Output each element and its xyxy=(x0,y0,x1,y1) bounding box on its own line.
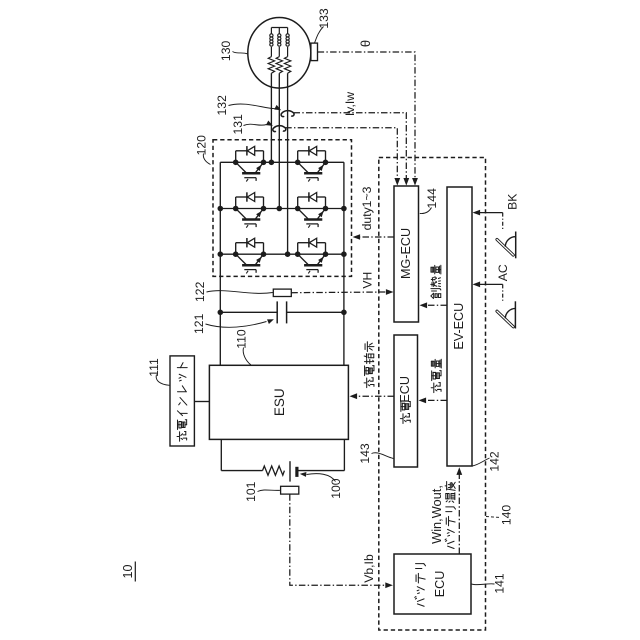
inductor: motor winding L3 xyxy=(287,28,289,35)
svg-text:Iv,Iw: Iv,Iw xyxy=(343,92,357,116)
leader arrow for 121 xyxy=(206,322,267,328)
voltage sensor 122 xyxy=(273,289,291,296)
transistor+diode Q4 xyxy=(298,192,326,227)
net charge amount: EV-ECU to charge ECU xyxy=(426,399,448,401)
net Iw: sensor 132 signal to MG-ECU xyxy=(294,113,407,179)
wire: motor phase v to inverter leg2 xyxy=(278,73,280,208)
leader for 143 xyxy=(372,453,394,459)
svg-text:θ: θ xyxy=(358,40,373,47)
svg-text:120: 120 xyxy=(195,135,209,156)
svg-text:AC: AC xyxy=(496,264,510,281)
junction dots row 1 xyxy=(233,160,328,166)
leader for 133 xyxy=(315,27,324,43)
wire: inverter leg row 1 xyxy=(220,161,344,163)
svg-text:Win,Wout,: Win,Wout, xyxy=(429,485,444,544)
charge ECU 143 xyxy=(394,335,418,467)
wire: inlet to ESU xyxy=(194,401,209,403)
resistor: motor winding R3 xyxy=(284,57,290,74)
resistor (battery internal) xyxy=(263,466,285,475)
svg-text:MG-ECU: MG-ECU xyxy=(399,228,413,279)
wire: inverter leg row 3 xyxy=(220,253,344,255)
svg-text:110: 110 xyxy=(235,329,249,349)
accelerator pedal xyxy=(497,301,515,328)
svg-text:111: 111 xyxy=(147,358,161,377)
battery sensor 101 xyxy=(281,486,299,494)
net charge instruction: charge ECU to ESU xyxy=(357,395,395,397)
net Win,Wout,battery-temp: battery ECU to EV-ECU xyxy=(458,474,460,554)
svg-text:130: 130 xyxy=(219,41,233,62)
svg-text:100: 100 xyxy=(329,478,343,499)
wire: inverter leg row 2 xyxy=(220,208,344,210)
resolver 133 xyxy=(311,43,318,61)
leader for 111 xyxy=(156,375,169,386)
current sensor 132 (phase w) xyxy=(281,111,294,117)
ESU 110 (energy storage unit) xyxy=(209,365,348,439)
leader for 141 xyxy=(471,583,494,586)
MG-ECU 144 xyxy=(394,186,419,322)
transistor+diode Q2 xyxy=(298,146,326,181)
svg-text:144: 144 xyxy=(425,188,439,209)
battery cell 100 xyxy=(290,461,297,481)
svg-text:143: 143 xyxy=(358,443,372,464)
svg-text:ECU: ECU xyxy=(398,376,412,403)
wire: negative DC rail (right) xyxy=(343,162,345,365)
svg-text:duty1~3: duty1~3 xyxy=(360,186,374,230)
motor M 130 (stator windings) xyxy=(248,18,311,89)
label juuden-ryou xyxy=(431,359,441,392)
brake pedal xyxy=(497,232,516,259)
wire: motor phase u to inverter leg1 xyxy=(270,73,272,162)
leader for 120 xyxy=(203,154,210,165)
net duty1~3: MG-ECU to inverter xyxy=(360,236,395,238)
svg-text:133: 133 xyxy=(317,8,331,29)
transistor+diode Q3 xyxy=(236,192,264,227)
label battery-temp xyxy=(445,482,455,549)
capacitor 121 (DC link) xyxy=(220,301,344,323)
svg-text:140: 140 xyxy=(500,505,514,526)
current sensor 131 (phase v) xyxy=(273,126,286,132)
svg-text:VH: VH xyxy=(361,272,375,289)
battery loop wires xyxy=(221,439,344,470)
net VH: sensor 122 signal to MG-ECU xyxy=(291,291,386,294)
inductor: motor winding L1 xyxy=(270,28,272,35)
junction dots row 2 xyxy=(218,206,347,212)
wire: motor neutral bus xyxy=(271,27,287,29)
junction: capacitor on right rail xyxy=(341,310,347,316)
junction: capacitor on left rail xyxy=(218,310,224,316)
net AC: accelerator pedal to EV-ECU xyxy=(480,283,503,285)
svg-text:132: 132 xyxy=(215,95,229,116)
transistor+diode Q5 xyxy=(236,238,264,273)
leader for 110 xyxy=(243,348,251,365)
svg-text:ECU: ECU xyxy=(433,571,447,598)
net theta: resolver signal to MG-ECU xyxy=(318,52,415,179)
svg-text:131: 131 xyxy=(231,114,245,135)
wire: motor phase w to inverter leg3 xyxy=(287,73,289,254)
inductor: motor winding L2 xyxy=(278,28,280,35)
resistor: motor winding R1 xyxy=(268,57,274,74)
junction dots row 3 xyxy=(218,251,347,257)
dashed leader for 140 xyxy=(486,517,501,518)
svg-text:121: 121 xyxy=(192,313,206,334)
svg-text:101: 101 xyxy=(244,481,258,502)
EV-ECU 142 xyxy=(447,187,472,466)
leader arrow for 131 xyxy=(244,124,267,125)
wire: positive DC rail (left) xyxy=(219,162,221,365)
net BK: brake pedal to EV-ECU xyxy=(480,212,503,214)
net Iv: sensor 131 signal to MG-ECU xyxy=(285,128,397,179)
svg-text:BK: BK xyxy=(506,194,520,210)
svg-text:122: 122 xyxy=(193,281,207,302)
svg-text:Vb,Ib: Vb,Ib xyxy=(362,554,376,583)
svg-text:ESU: ESU xyxy=(272,388,287,416)
transistor+diode Q6 xyxy=(298,238,326,273)
leader arrow for 100 xyxy=(307,474,336,482)
leader for 122 xyxy=(207,291,273,294)
ECU assembly 140 (dashed enclosure) xyxy=(379,158,486,631)
charge inlet 111 xyxy=(170,356,194,446)
leader for 144 xyxy=(420,208,432,214)
leader for 101 xyxy=(258,490,281,492)
battery ECU 141 xyxy=(394,554,471,614)
net Vb,Ib: battery sensor to battery ECU xyxy=(290,494,386,585)
leader arrow for 132 xyxy=(229,104,276,109)
svg-text:142: 142 xyxy=(488,451,502,472)
svg-text:141: 141 xyxy=(493,573,507,594)
resistor: motor winding R2 xyxy=(276,57,282,74)
transistor+diode Q1 xyxy=(236,146,264,181)
svg-text:EV-ECU: EV-ECU xyxy=(452,303,466,350)
leader for 142 xyxy=(472,458,489,466)
label juuden-shiji xyxy=(364,342,374,388)
net heat-gen amount: EV-ECU to MG-ECU xyxy=(427,304,448,306)
label sou-netsu-ryou xyxy=(431,265,441,298)
inverter 120 (dashed enclosure) xyxy=(213,140,352,277)
svg-text:10: 10 xyxy=(121,564,135,578)
leader for 130 xyxy=(233,52,249,55)
